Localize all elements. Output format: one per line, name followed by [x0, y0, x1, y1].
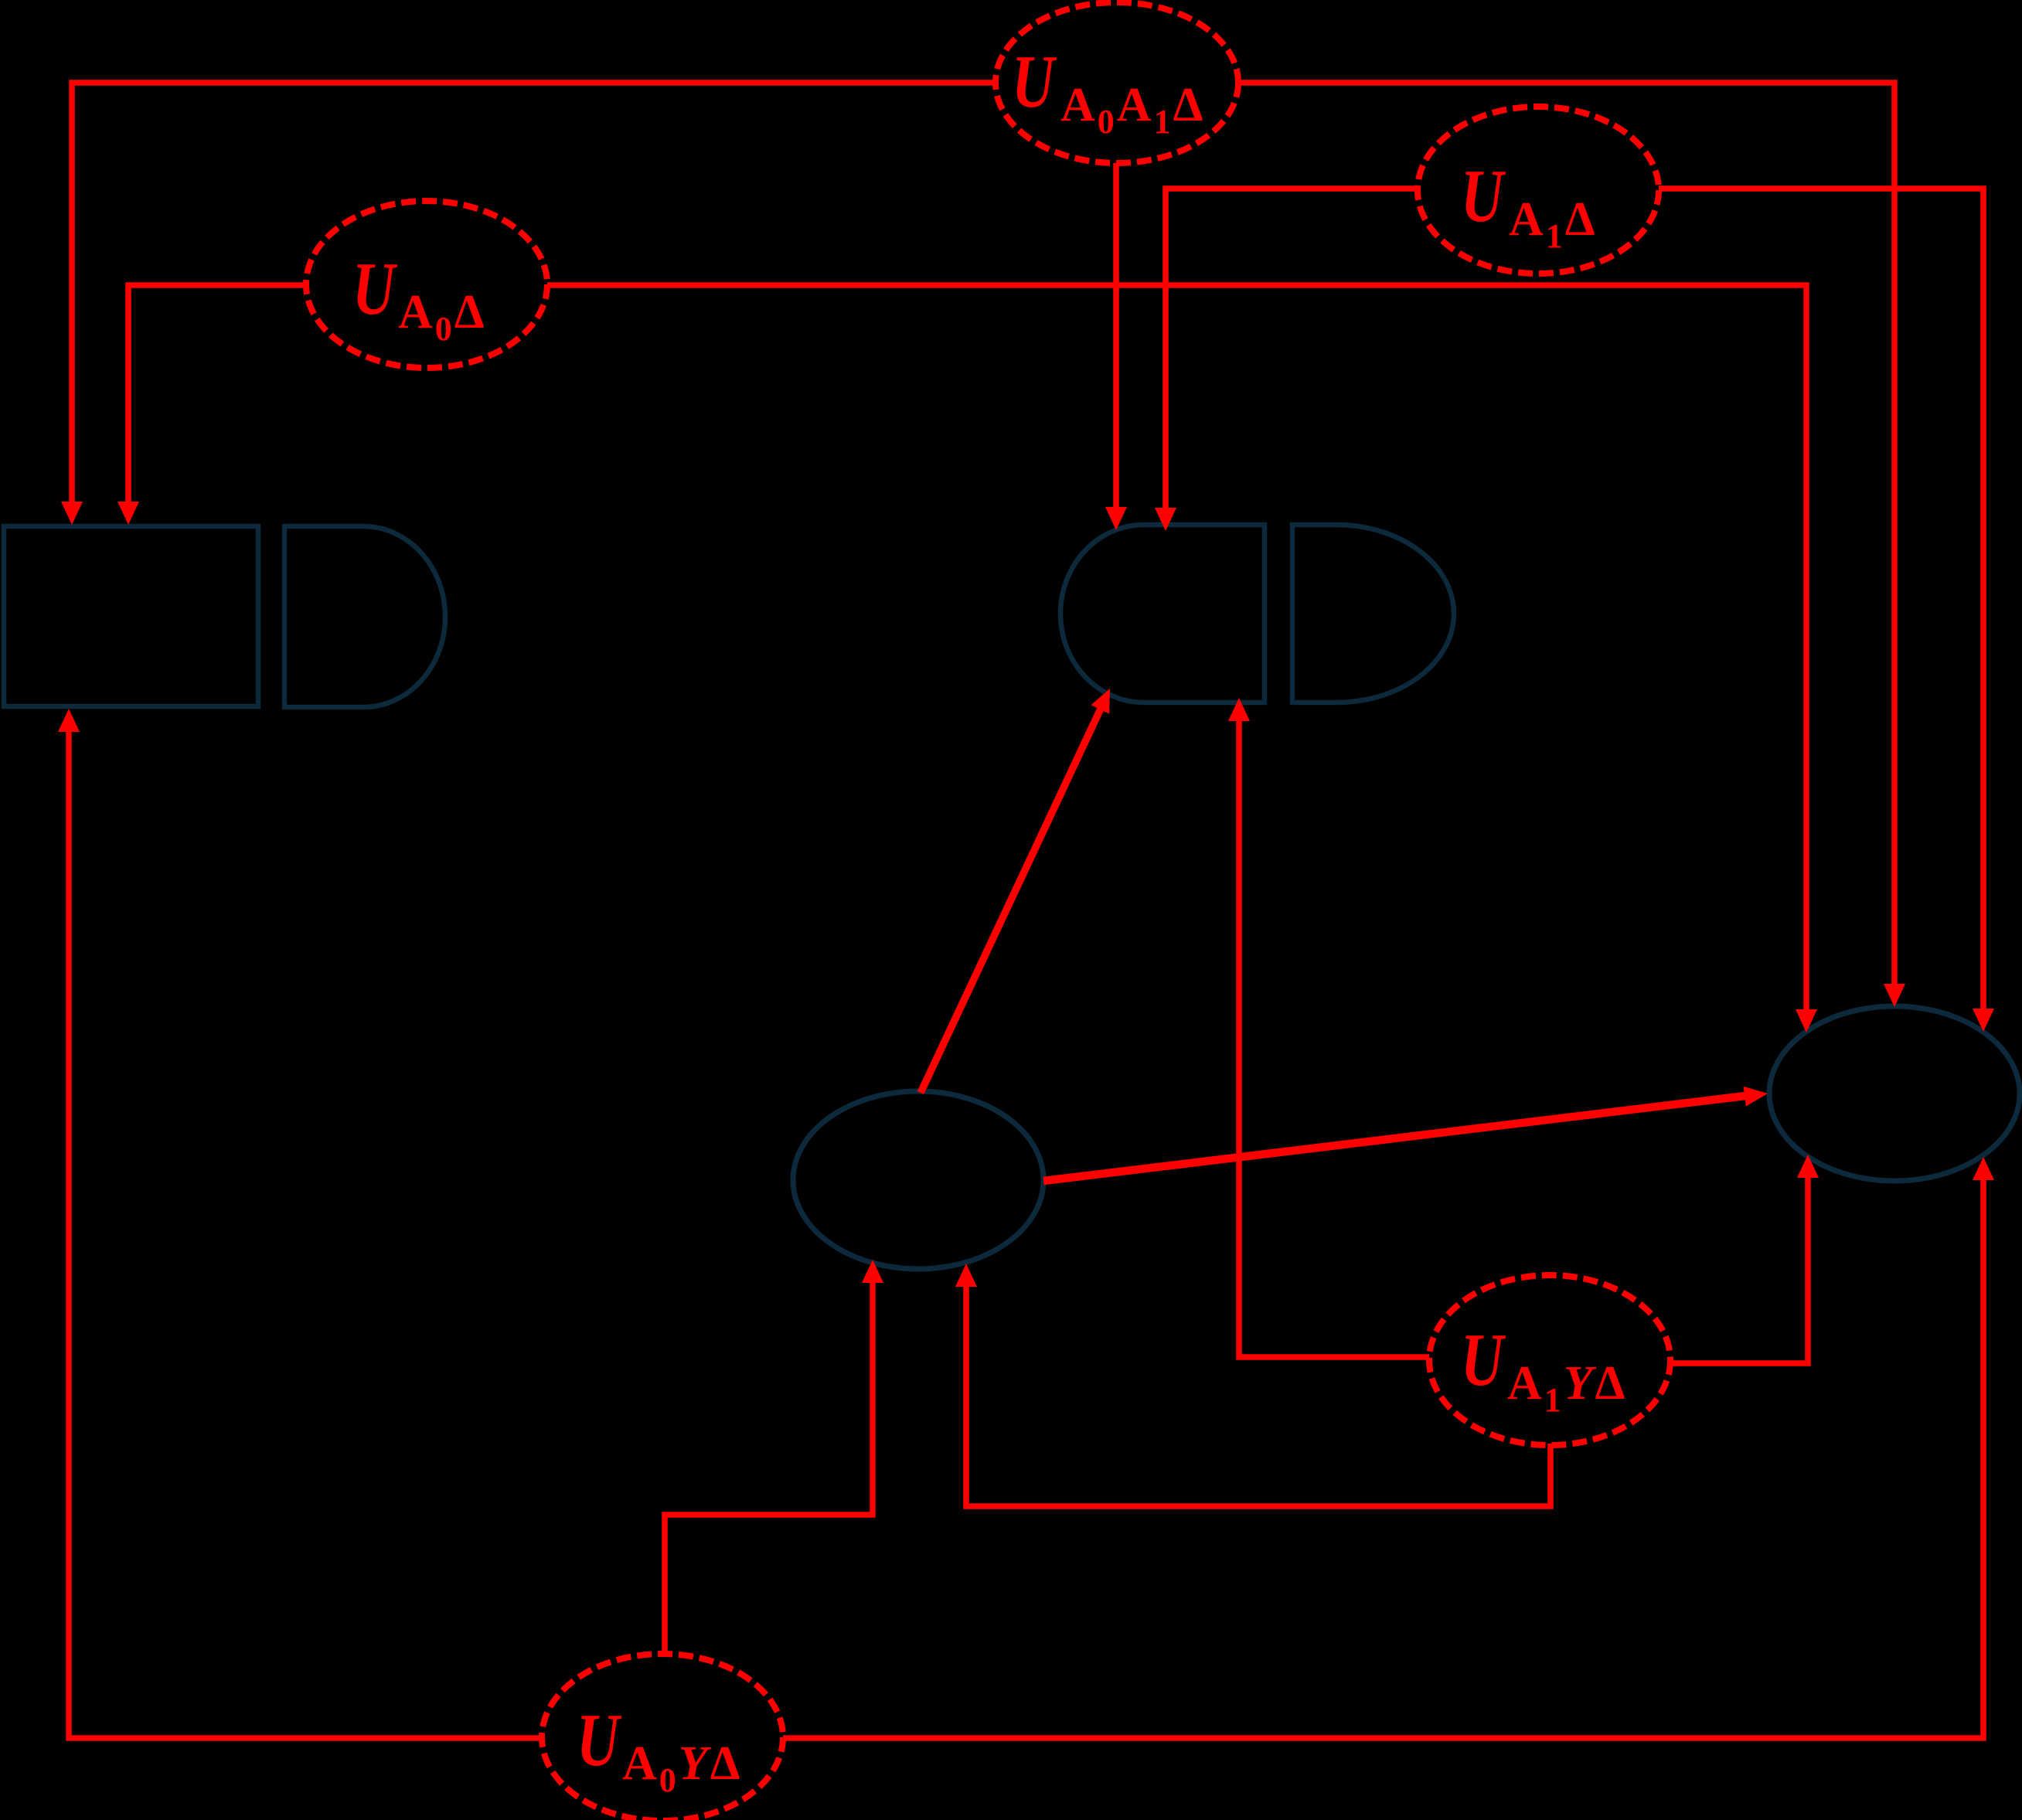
- arrowhead into A1 bottom-left from Y: [1091, 689, 1111, 714]
- svg-text:U: U: [352, 247, 397, 331]
- svg-text:U: U: [1461, 155, 1506, 238]
- arrowhead into A0 top from U_A0D: [117, 502, 139, 525]
- wire U_A0D to A0 (left elbow): [128, 285, 306, 503]
- node A0 right half (D-shape, intervened part a0): [284, 526, 445, 707]
- arrowhead into Delta upper-left from U_A0D: [1796, 1009, 1817, 1032]
- latent node U_A0D (dashed ellipse): [306, 201, 547, 368]
- latent node U_A1YD (dashed ellipse): [1429, 1275, 1670, 1445]
- svg-text:U: U: [577, 1699, 621, 1782]
- latent node U_A0A1D (dashed ellipse): [996, 2, 1238, 163]
- wire U_A0YD to A0 (left elbow up): [69, 730, 542, 1738]
- wire U_A0YD to Y (top elbow): [665, 1281, 873, 1655]
- node A1 left half (rounded stadium half, random part): [1060, 525, 1265, 702]
- svg-text:U: U: [1012, 40, 1057, 124]
- wire U_A1D to Delta (right elbow down): [1659, 189, 1983, 1010]
- node A1 right half (D-shape, intervened part a1): [1292, 525, 1454, 702]
- wire U_A0A1D to A0 (left top elbow): [72, 83, 996, 503]
- arrowhead into Delta left from Y: [1744, 1087, 1768, 1107]
- arrowhead into A1 top from U_A1D: [1155, 508, 1176, 531]
- arrowhead into Delta bottom-left from U_A1YD: [1797, 1155, 1819, 1178]
- wire U_A1YD to A1 (left elbow up): [1239, 719, 1429, 1357]
- wire Y to Delta (near-horizontal diagonal): [1043, 1096, 1745, 1181]
- latent node U_A1D (dashed ellipse): [1418, 107, 1659, 274]
- wire U_A0D to Delta (long right elbow): [547, 285, 1806, 1011]
- wire U_A1YD to Delta (right elbow up): [1672, 1176, 1808, 1363]
- arrowhead into Delta bottom-right from U_A0YD: [1973, 1157, 1994, 1180]
- arrowhead into Y bottom-left from U_A0YD: [862, 1260, 883, 1283]
- arrowhead into A1 bottom from U_A1YD: [1228, 698, 1250, 721]
- arrowhead into A0 bottom from U_A0YD: [58, 709, 80, 732]
- node Delta (right ellipse): [1769, 1006, 2020, 1181]
- wire U_A0YD to Delta (right elbow up): [783, 1179, 1983, 1738]
- svg-text:U: U: [1461, 1318, 1506, 1402]
- wire Y to A1 (diagonal): [921, 709, 1101, 1093]
- arrowhead into Delta top-right from U_A1D: [1973, 1009, 1994, 1032]
- wire U_A0A1D to Delta (top right elbow): [1238, 83, 1894, 985]
- wire U_A0A1D to A1 (vertical drop): [1113, 163, 1119, 509]
- wire U_A1D to A1 (left elbow down): [1166, 189, 1417, 509]
- arrowhead into A0 top from U_A0A1D: [61, 502, 83, 525]
- latent node U_A0YD (dashed ellipse): [542, 1654, 783, 1820]
- arrowhead into A1 top from U_A0A1D: [1105, 507, 1127, 530]
- node Y (center ellipse): [793, 1091, 1043, 1269]
- arrowhead into Delta top from U_A0A1D: [1884, 984, 1905, 1007]
- wire U_A1YD to Y (bottom elbow): [966, 1285, 1551, 1506]
- node A0 left half (rectangle, random part): [4, 526, 258, 706]
- arrowhead into Y bottom-right from U_A1YD: [955, 1264, 977, 1287]
